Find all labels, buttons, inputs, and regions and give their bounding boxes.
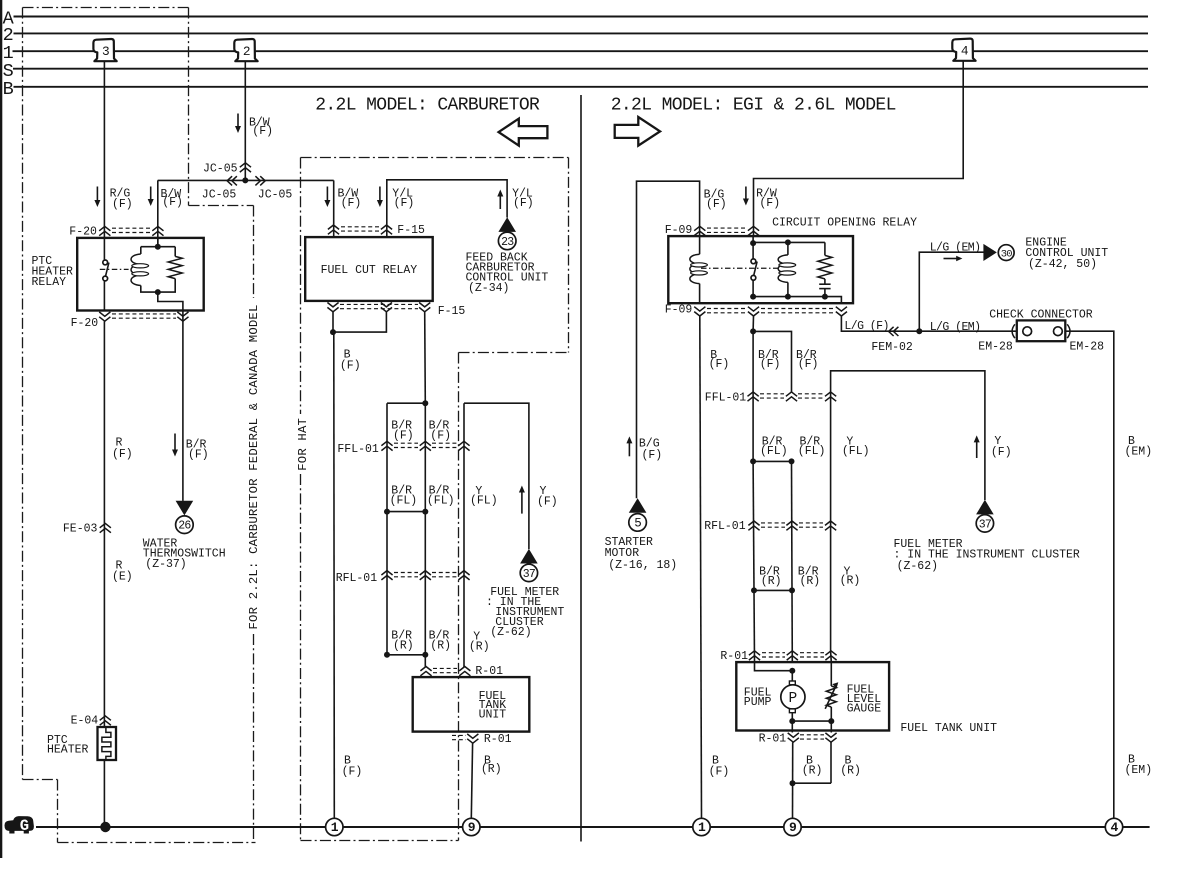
destination circle 5 bbox=[629, 514, 647, 532]
wire tank outputs down bbox=[792, 742, 794, 818]
node COR coil2 top bbox=[785, 239, 791, 245]
check connector paren left bbox=[1012, 324, 1015, 338]
svg-text:(F): (F) bbox=[112, 448, 133, 461]
node gauge bottom bbox=[828, 718, 834, 724]
node rung mid right bbox=[422, 509, 428, 515]
wire ladder left rail bbox=[386, 403, 388, 655]
svg-text:(Z-34): (Z-34) bbox=[468, 282, 509, 295]
wire COR switch entry bbox=[752, 236, 754, 259]
region border carb-model bottom jog h bbox=[23, 779, 58, 781]
wire JC-05 to PTC coil bbox=[157, 180, 159, 246]
wire branch rung bbox=[753, 331, 791, 392]
connector F-15 top chevron wire1 bbox=[328, 225, 339, 234]
connector FFL-01 chevron w3 bbox=[458, 441, 469, 450]
svg-text:(F): (F) bbox=[991, 446, 1012, 459]
node branch right bbox=[750, 328, 756, 334]
arrow Y/L up bbox=[499, 196, 501, 210]
svg-text:4: 4 bbox=[1110, 820, 1118, 835]
svg-text:5: 5 bbox=[634, 516, 641, 530]
svg-text:(F): (F) bbox=[513, 197, 534, 210]
connector FFL-01 R chevron w3 bbox=[825, 392, 836, 401]
destination circle 37 L bbox=[520, 564, 537, 581]
svg-text:(R): (R) bbox=[840, 765, 861, 778]
connector F-09 bottom dashes a bbox=[707, 308, 746, 310]
svg-text:PUMP: PUMP bbox=[744, 696, 772, 709]
ground bus bbox=[36, 826, 1150, 828]
wire Y FL corner right bbox=[831, 371, 985, 500]
node rung bottom right bbox=[422, 652, 428, 658]
connector R-01 L chevron w2 bbox=[459, 667, 470, 676]
region border for-hat left upper bbox=[300, 158, 302, 415]
region border carb-model right v2 bbox=[253, 634, 255, 843]
svg-text:(F): (F) bbox=[340, 360, 361, 373]
node ladder top bbox=[422, 400, 428, 406]
svg-text:(F): (F) bbox=[393, 429, 414, 442]
arrow B/W relay bbox=[326, 187, 328, 202]
arrow left (carburetor side) bbox=[499, 119, 548, 146]
wire conn4 down bbox=[754, 61, 964, 236]
wire PTC coil stub top bbox=[140, 247, 142, 254]
wire JC-05 horizontal bbox=[158, 179, 334, 181]
triangle to fuel meter R bbox=[976, 500, 994, 515]
svg-text:FE-03: FE-03 bbox=[63, 522, 98, 535]
bus line A bbox=[14, 16, 1149, 18]
node rung2 r left bbox=[751, 587, 757, 593]
wire gauge top lead bbox=[830, 662, 832, 686]
node COR top bbox=[750, 240, 756, 246]
svg-text:R-01: R-01 bbox=[759, 733, 787, 746]
svg-text:(F): (F) bbox=[709, 358, 730, 371]
wire rung2 right bbox=[754, 589, 792, 591]
connector FFL-01 dashes b bbox=[432, 442, 457, 444]
svg-text:(R): (R) bbox=[802, 765, 823, 778]
connector RFL-01 dashes b bbox=[432, 572, 457, 574]
connector F-20 chevron wire1 bbox=[99, 226, 110, 235]
svg-text:(EM): (EM) bbox=[1125, 764, 1153, 777]
connector 2 bbox=[234, 39, 257, 61]
wire conn3 to PTC relay bbox=[103, 62, 105, 261]
connector FFL-01 R chevron w2 bbox=[786, 392, 797, 401]
connector R-01 R bottom chevron w1 bbox=[788, 733, 799, 742]
wire pump bottom lead bbox=[791, 713, 793, 721]
connector F-09 bottom dashes b bbox=[761, 308, 834, 310]
svg-text:2.2L MODEL: CARBURETOR: 2.2L MODEL: CARBURETOR bbox=[315, 95, 540, 115]
wire COR switch exit bbox=[752, 280, 754, 296]
ground node 4 (EGI) bbox=[1105, 818, 1122, 835]
node JC-05 bbox=[242, 177, 248, 183]
connector R-01 R chevron w1 bbox=[749, 651, 760, 660]
wire COR coil2 exit bbox=[787, 282, 789, 296]
node pump top bbox=[789, 668, 795, 674]
connector F-20 dashes bottom bbox=[112, 313, 176, 315]
svg-text:(Z-62): (Z-62) bbox=[490, 626, 531, 639]
wire starter loop bbox=[637, 181, 700, 498]
svg-text:(R): (R) bbox=[481, 763, 502, 776]
arrow B/W conn2 bbox=[237, 114, 239, 128]
check connector paren right bbox=[1067, 324, 1070, 338]
connector RFL-01 chevron w2 bbox=[420, 571, 431, 580]
connector E-04 chevron bbox=[100, 716, 111, 725]
connector RFL-01 R dashes b bbox=[799, 522, 823, 524]
svg-text:1: 1 bbox=[698, 820, 706, 835]
svg-text:(F): (F) bbox=[798, 358, 819, 371]
svg-text:(FL): (FL) bbox=[390, 495, 418, 508]
ground node 9 (EGI) bbox=[784, 818, 801, 835]
connector F-15 top dashes bbox=[341, 226, 379, 228]
svg-text:9: 9 bbox=[468, 820, 476, 835]
node L/G junction bbox=[916, 328, 922, 334]
svg-text:G: G bbox=[20, 817, 29, 835]
wire ladder right rail bbox=[424, 403, 426, 667]
svg-text:L/G (F): L/G (F) bbox=[844, 320, 888, 333]
svg-text:B: B bbox=[3, 79, 14, 100]
wire Y/L loop bbox=[387, 180, 507, 237]
svg-text:P: P bbox=[789, 691, 798, 707]
svg-text:(F): (F) bbox=[252, 125, 273, 138]
node rung2 r right bbox=[789, 587, 795, 593]
svg-text:(EM): (EM) bbox=[1125, 446, 1153, 459]
wire ladder top rung bbox=[387, 402, 425, 404]
svg-text:L/G (EM): L/G (EM) bbox=[930, 321, 981, 334]
connector FFL-01 R chevron w1 bbox=[748, 392, 759, 401]
destination circle 23 bbox=[498, 232, 516, 250]
arrow B/R thermo bbox=[174, 434, 176, 451]
svg-text:23: 23 bbox=[501, 236, 514, 249]
coil COR right bbox=[778, 255, 788, 283]
bus line 1 bbox=[13, 50, 1149, 52]
wire L/G up to ECU bbox=[919, 252, 983, 331]
region border carb-model bottom jog v bbox=[57, 780, 59, 843]
connector F-15 bottom chevron pin1 bbox=[327, 303, 338, 312]
svg-text:RFL-01: RFL-01 bbox=[704, 520, 746, 533]
wire COR coil2 stub bbox=[787, 242, 789, 255]
svg-text:2.2L MODEL: EGI & 2.6L MODEL: 2.2L MODEL: EGI & 2.6L MODEL bbox=[611, 95, 896, 115]
svg-text:(F): (F) bbox=[537, 496, 558, 509]
junction JC-05 chevron bbox=[240, 163, 251, 172]
svg-text:GAUGE: GAUGE bbox=[847, 703, 882, 716]
fuel level gauge rheostat bbox=[826, 686, 836, 707]
connector F-20 bottom chevron wire1 bbox=[99, 312, 110, 321]
wire Y FL vertical bbox=[463, 403, 465, 667]
svg-text:(F): (F) bbox=[342, 766, 363, 779]
wire ladder rung mid bbox=[387, 511, 425, 513]
svg-text:(F): (F) bbox=[709, 766, 730, 779]
svg-text:FUEL CUT RELAY: FUEL CUT RELAY bbox=[321, 264, 418, 277]
connector F-20 dashes bbox=[112, 227, 150, 229]
node PTC coil bottom bbox=[155, 289, 161, 295]
check connector pin2 bbox=[1054, 327, 1063, 336]
pump terminal bottom bbox=[789, 709, 795, 713]
connector F-15 bottom chevron pin2 bbox=[381, 303, 392, 312]
connector FFL-01 chevron w2 bbox=[420, 441, 431, 450]
connector R-01 L bottom dashes bbox=[452, 734, 466, 736]
wire COR bottom rail bbox=[753, 297, 841, 304]
wire Y top corner bbox=[464, 403, 529, 549]
arrow R/G bbox=[96, 187, 98, 202]
resistor COR bbox=[818, 255, 832, 279]
connector RFL-01 R chevron w2 bbox=[786, 521, 797, 530]
unit fuel tank unit box L bbox=[413, 677, 530, 732]
wire gauge bottom lead bbox=[830, 707, 832, 721]
svg-text:(FL): (FL) bbox=[427, 495, 455, 508]
coil PTC relay bbox=[131, 254, 141, 286]
wire B(F) egi to node1 bbox=[700, 316, 702, 818]
connector FFL-01 R dashes a bbox=[760, 393, 784, 395]
ground symbol car body bbox=[5, 816, 34, 833]
connector F-15 bottom chevron pin3 bbox=[419, 303, 430, 312]
svg-text:(FL): (FL) bbox=[842, 445, 870, 458]
bus line 2 bbox=[14, 32, 1149, 34]
arrow Y(F) egi up bbox=[976, 441, 978, 458]
svg-text:(R): (R) bbox=[469, 641, 490, 654]
wire rail1 lower bbox=[752, 461, 755, 590]
scan edge bar left bbox=[0, 0, 2, 858]
wire tank exits bbox=[791, 721, 793, 732]
resistor PTC relay bbox=[168, 256, 182, 278]
wire Y R segment bbox=[830, 392, 832, 651]
svg-text:(F): (F) bbox=[112, 198, 133, 211]
svg-text:(F): (F) bbox=[642, 449, 663, 462]
svg-text:FFL-01: FFL-01 bbox=[705, 391, 747, 404]
connector F-09 bottom chevron w2 bbox=[748, 307, 759, 316]
wire PTC resistor stub top bbox=[174, 247, 176, 257]
divider line bbox=[580, 95, 582, 842]
wire tank pump jog bbox=[755, 662, 793, 671]
arrow Y/L bbox=[379, 187, 381, 202]
connector F-09 top chevron w1 bbox=[694, 226, 705, 235]
svg-text:L/G (EM): L/G (EM) bbox=[930, 242, 981, 255]
svg-text:(FL): (FL) bbox=[470, 495, 498, 508]
wire PTC coil entry bbox=[157, 238, 159, 247]
wire JC-05 to fuel cut relay bbox=[333, 180, 335, 237]
node COR bottom 2 bbox=[785, 294, 791, 300]
wire right rail1 bbox=[752, 331, 754, 461]
region border for-hat top bbox=[301, 157, 569, 159]
svg-text:2: 2 bbox=[243, 44, 251, 59]
connector F-20 bottom chevron wire2 bbox=[177, 312, 188, 321]
svg-text:(F): (F) bbox=[430, 429, 451, 442]
svg-text:(Z-42, 50): (Z-42, 50) bbox=[1028, 258, 1097, 271]
svg-text:(F): (F) bbox=[162, 196, 183, 209]
arrow R/W bbox=[745, 187, 747, 200]
wire rail2 lower bbox=[791, 461, 794, 590]
connector RFL-01 R chevron w1 bbox=[748, 521, 759, 530]
svg-text:37: 37 bbox=[979, 518, 991, 531]
wire PTC inner top rail bbox=[141, 246, 175, 248]
wire PTC switch lower bbox=[103, 281, 105, 311]
wire conn2 to JC-05 bbox=[244, 62, 246, 181]
svg-text:JC-05: JC-05 bbox=[258, 188, 293, 201]
connector R-01 R bottom dashes bbox=[800, 734, 824, 736]
region border for-hat right upper bbox=[568, 158, 570, 353]
wire fuel cut pin2 down bbox=[333, 312, 386, 332]
connector RFL-01 R dashes a bbox=[761, 522, 785, 524]
svg-text:(E): (E) bbox=[112, 571, 133, 584]
region border for-hat step bbox=[459, 352, 569, 354]
arrow Y(F) up bbox=[521, 492, 523, 514]
svg-text:FOR 2.2L: CARBURETOR FEDERAL &: FOR 2.2L: CARBURETOR FEDERAL & CANADA MO… bbox=[247, 304, 261, 629]
connector FFL-01 dashes a bbox=[394, 442, 418, 444]
coil COR left bbox=[690, 254, 700, 283]
svg-text:(F): (F) bbox=[188, 449, 209, 462]
triangle to water thermoswitch bbox=[176, 501, 194, 516]
arrow flow right bbox=[944, 258, 959, 260]
svg-text:FEM-02: FEM-02 bbox=[871, 341, 913, 354]
connector R-01 R chevron w2 bbox=[787, 651, 798, 660]
region border for-hat bottom bbox=[301, 840, 459, 842]
node COR bottom 1 bbox=[750, 294, 756, 300]
wire L/G from relay bbox=[841, 316, 1016, 331]
connector F-15 bottom dashes bbox=[340, 303, 418, 305]
svg-text:RELAY: RELAY bbox=[32, 276, 67, 289]
bus line B bbox=[14, 86, 1149, 88]
svg-text:(Z-62): (Z-62) bbox=[897, 560, 938, 573]
connector F-09 bottom chevron w1 bbox=[694, 307, 705, 316]
svg-text:HEATER: HEATER bbox=[47, 743, 89, 756]
svg-text:F-20: F-20 bbox=[71, 317, 99, 330]
svg-text:(FL): (FL) bbox=[798, 445, 826, 458]
arrow B/W mid bbox=[150, 187, 152, 201]
wire COR cap exit bbox=[824, 289, 826, 297]
ground node dot (PTC heater) bbox=[100, 822, 110, 832]
connector F-15 top chevron wire2 bbox=[381, 225, 392, 234]
node COR bottom 3 bbox=[822, 294, 828, 300]
connector RFL-01 dashes a bbox=[394, 572, 418, 574]
svg-text:(F): (F) bbox=[760, 358, 781, 371]
triangle to feedback carburetor control unit bbox=[498, 217, 516, 232]
svg-text:(F): (F) bbox=[759, 197, 780, 210]
svg-text:FOR HAT: FOR HAT bbox=[296, 418, 310, 471]
node pump bottom bbox=[789, 718, 795, 724]
svg-text:(R): (R) bbox=[840, 575, 861, 588]
svg-text:RFL-01: RFL-01 bbox=[336, 572, 378, 585]
wire tank L to node9 bbox=[471, 743, 472, 818]
svg-text:(F): (F) bbox=[394, 197, 415, 210]
connector FE-03 chevron bbox=[100, 523, 111, 532]
svg-text:R-01: R-01 bbox=[720, 650, 748, 663]
wire B(F) to ground node1 bbox=[333, 332, 336, 818]
check connector pin1 bbox=[1023, 327, 1032, 336]
wire ladder rung bottom bbox=[387, 654, 425, 656]
svg-text:9: 9 bbox=[789, 820, 797, 835]
svg-text:EM-28: EM-28 bbox=[978, 341, 1013, 354]
connector F-09 bottom chevron w3 bbox=[836, 307, 847, 316]
link PTC relay actuator bbox=[100, 268, 129, 270]
destination circle 30 bbox=[998, 245, 1014, 261]
ground node 9 (carb) bbox=[463, 818, 480, 835]
svg-text:F-15: F-15 bbox=[438, 305, 466, 318]
relay fuel cut relay box bbox=[305, 237, 433, 301]
node rung mid left bbox=[384, 509, 390, 515]
wire fuel cut pin3 down bbox=[424, 312, 427, 403]
connector F-09 top dashes bbox=[707, 227, 746, 229]
svg-text:(R): (R) bbox=[800, 575, 821, 588]
wire COR left coil entry bbox=[699, 236, 701, 254]
wire COR left coil exit bbox=[699, 284, 701, 304]
region border for-hat right lower bbox=[458, 353, 460, 841]
switch COR contact bbox=[751, 259, 756, 264]
connector R-01 R dashes b bbox=[800, 652, 824, 654]
svg-text:26: 26 bbox=[178, 520, 191, 533]
capacitor COR bbox=[819, 283, 830, 285]
wire Y to tank R bbox=[830, 652, 833, 663]
component PTC heater box bbox=[98, 727, 117, 760]
wire check connector to node4 bbox=[1065, 331, 1114, 818]
switch PTC relay contact bbox=[103, 260, 108, 265]
svg-text:(FL): (FL) bbox=[760, 445, 788, 458]
connector FEM-02 mark bbox=[889, 327, 899, 336]
region border for-hat left lower bbox=[300, 474, 302, 841]
wire COR top rail bbox=[753, 241, 825, 243]
svg-text:4: 4 bbox=[961, 44, 969, 59]
relay circuit opening relay box bbox=[668, 236, 853, 303]
node PTC coil top bbox=[155, 244, 161, 250]
wire tank join bbox=[793, 782, 832, 784]
junction JC-05 left mark bbox=[227, 176, 237, 185]
connector R-01 L dashes bbox=[433, 667, 457, 669]
triangle to fuel meter L bbox=[520, 549, 538, 564]
wire fuel cut pin1 down bbox=[332, 312, 334, 332]
connector R-01 R chevron w3 bbox=[825, 651, 836, 660]
wire COR out to dot bbox=[752, 316, 754, 331]
unit fuel tank unit box R bbox=[736, 662, 889, 730]
connector R-01 R dashes a bbox=[762, 652, 785, 654]
pump terminal top bbox=[789, 681, 795, 685]
connector FFL-01 chevron w1 bbox=[381, 441, 392, 450]
svg-text:(F): (F) bbox=[341, 197, 362, 210]
svg-text:1: 1 bbox=[331, 820, 339, 835]
connector R-01 L chevron w1 bbox=[420, 667, 431, 676]
relay PTC heater relay box bbox=[77, 238, 204, 311]
region border carb-model right v1 bbox=[253, 206, 255, 299]
wire PTC resistor stub bottom bbox=[158, 279, 175, 293]
svg-text:F-20: F-20 bbox=[69, 226, 97, 239]
node rung1 r right bbox=[789, 458, 795, 464]
connector R-01 L bottom chevron bbox=[467, 734, 478, 743]
wire tank bottom rail bbox=[792, 720, 831, 722]
connector F-20 chevron wire2 bbox=[152, 226, 163, 235]
connector 4 bbox=[952, 39, 975, 61]
wire PTC heater to ground bbox=[103, 760, 105, 827]
svg-text:FUEL TANK UNIT: FUEL TANK UNIT bbox=[900, 722, 997, 735]
wire PTC relay output bbox=[158, 292, 183, 321]
triangle to starter motor bbox=[629, 498, 647, 513]
svg-text:CIRCUIT OPENING RELAY: CIRCUIT OPENING RELAY bbox=[772, 217, 917, 230]
node fuel cut output bbox=[330, 329, 336, 335]
svg-text:(Z-16, 18): (Z-16, 18) bbox=[608, 559, 677, 572]
wire COR resistor stub bbox=[824, 242, 826, 255]
region border carb-model bottom bbox=[58, 842, 256, 844]
svg-text:F-15: F-15 bbox=[397, 224, 425, 237]
junction JC-05 right mark bbox=[255, 176, 265, 185]
svg-text:EM-28: EM-28 bbox=[1070, 341, 1105, 354]
region border carb-model jog bbox=[189, 205, 254, 207]
connector F-09 top chevron w2 bbox=[748, 226, 759, 235]
arrow B/G up bbox=[628, 442, 630, 456]
wire rails to R-01 bbox=[753, 590, 756, 662]
ground node 1 (carb) bbox=[326, 818, 343, 835]
connector 3 bbox=[93, 39, 116, 61]
connector R-01 R bottom chevron w2 bbox=[825, 733, 836, 742]
wire to water thermoswitch bbox=[182, 321, 184, 501]
svg-text:(Z-37): (Z-37) bbox=[145, 558, 186, 571]
connector RFL-01 chevron w3 bbox=[458, 571, 469, 580]
destination circle 37 R bbox=[976, 515, 993, 532]
link COR actuator bbox=[701, 267, 780, 269]
svg-text:F-09: F-09 bbox=[665, 304, 693, 317]
svg-text:3: 3 bbox=[102, 44, 110, 59]
svg-text:(R): (R) bbox=[430, 640, 451, 653]
